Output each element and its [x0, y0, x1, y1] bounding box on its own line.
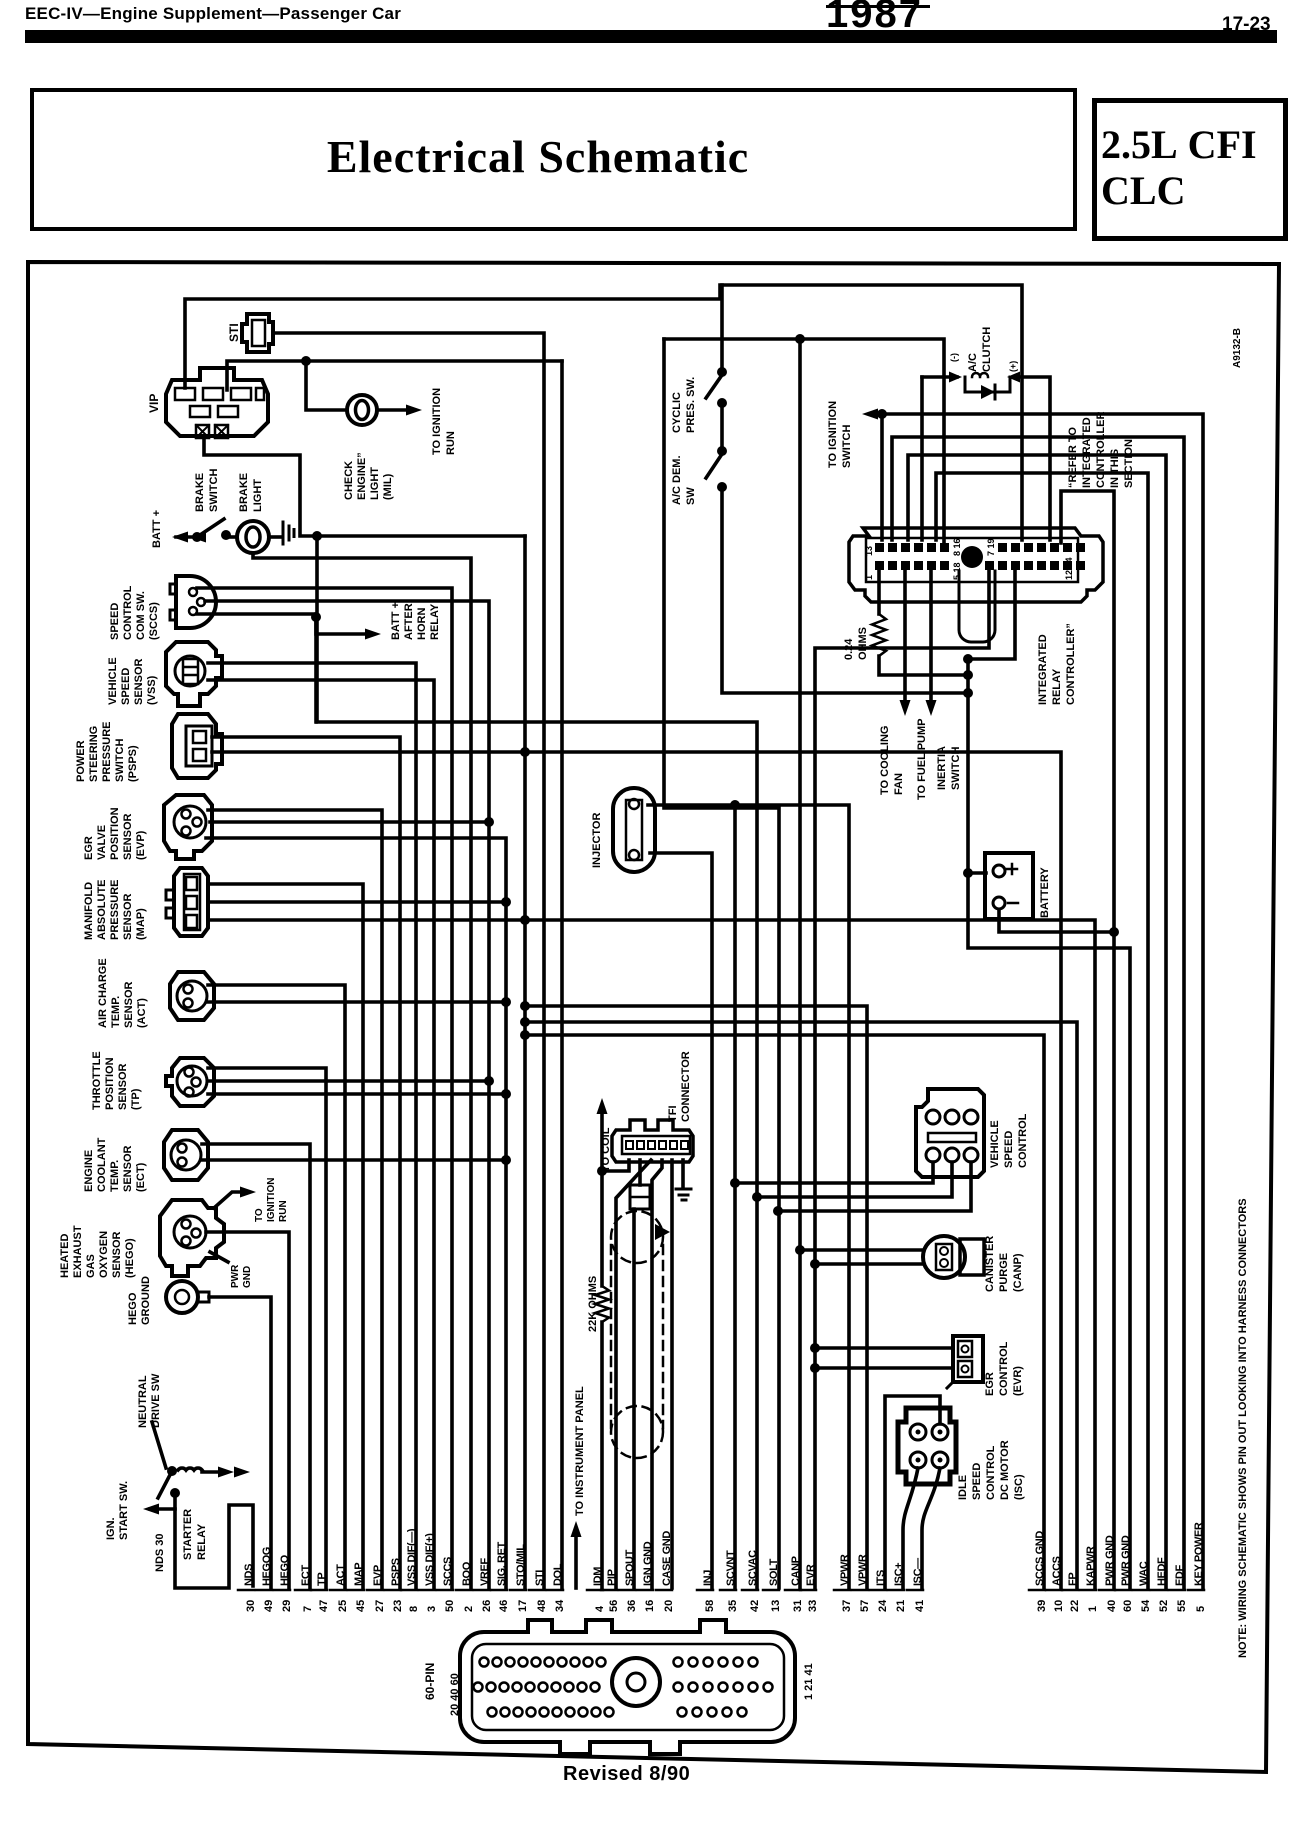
label BOO	[461, 1561, 473, 1586]
svg-text:1 21 41: 1 21 41	[803, 1663, 815, 1700]
svg-text:25: 25	[337, 1600, 349, 1612]
pin number 34	[554, 1599, 566, 1612]
svg-text:33: 33	[807, 1600, 819, 1612]
wire VSS DIF- to column	[208, 663, 416, 1588]
connector HEGO	[160, 1200, 224, 1276]
pin number 49	[263, 1600, 275, 1612]
svg-text:STI: STI	[227, 323, 241, 342]
node starter relay top	[170, 1488, 180, 1498]
wire FP pin label underline	[1062, 1589, 1078, 1592]
label KAPWR	[1085, 1546, 1097, 1586]
wire VIP pin1 to top rail then A/C area	[185, 285, 1022, 540]
label EVR	[805, 1564, 817, 1586]
switch NEUTRAL DRIVE SW	[152, 1422, 166, 1468]
resistor 0.24 OHMS	[872, 614, 886, 656]
svg-text:31: 31	[792, 1600, 804, 1612]
svg-text:30: 30	[245, 1600, 257, 1612]
wire TP pin2 vref	[208, 1079, 489, 1083]
svg-text:TO IGNITIONRUN: TO IGNITIONRUN	[431, 388, 457, 455]
wire TO INSTRUMENT PANEL	[574, 1530, 578, 1588]
label STARTER RELAY	[182, 1509, 208, 1560]
wire ign start sw arrow	[150, 1507, 175, 1511]
wire HEGO to column	[206, 1232, 289, 1588]
wire ECT pin2 sig ret	[202, 1158, 506, 1162]
relay pin label 12 24	[1064, 557, 1074, 580]
pin number 39	[1036, 1600, 1048, 1612]
resistor 22K OHMS	[595, 1286, 609, 1322]
svg-text:THROTTLEPOSITIONSENSOR(TP): THROTTLEPOSITIONSENSOR(TP)	[91, 1051, 142, 1110]
wire NDS pin label underline	[238, 1589, 254, 1592]
wire PIP pin label underline	[601, 1589, 617, 1592]
wire BOO from brake	[253, 553, 471, 1588]
svg-text:0.24OHMS: 0.24OHMS	[843, 627, 869, 660]
lamp BRAKE LIGHT	[237, 521, 269, 553]
svg-text:45: 45	[355, 1600, 367, 1612]
label ISC&#8212;	[912, 1558, 924, 1586]
label ACT	[335, 1564, 347, 1586]
svg-text:A9132-B: A9132-B	[1232, 328, 1243, 368]
wire staircase EDF	[892, 437, 1184, 1588]
label CHECK ENGINE LIGHT (MIL)	[343, 452, 394, 500]
wire IGN GND pin label underline	[637, 1589, 653, 1592]
svg-text:CANISTERPURGE(CANP): CANISTERPURGE(CANP)	[984, 1236, 1024, 1292]
label HEDF	[1156, 1557, 1168, 1586]
svg-text:13: 13	[864, 546, 874, 556]
wire EVR pin1	[815, 1346, 953, 1350]
label PWR GND	[1120, 1535, 1132, 1586]
svg-text:17: 17	[517, 1600, 529, 1612]
pin number 23	[392, 1600, 404, 1612]
label SPEED CONTROL COM SW. (SCCS)	[109, 585, 160, 640]
wire PSPS pin1 to column	[212, 737, 400, 1588]
svg-text:ECT: ECT	[300, 1565, 312, 1586]
label BRAKE SWITCH	[194, 469, 220, 512]
label DOL	[552, 1563, 564, 1586]
wire VSS DIF(+) pin label underline	[419, 1589, 435, 1592]
node MAP sigret	[501, 897, 511, 907]
pin number 57	[859, 1600, 871, 1612]
svg-text:TO INSTRUMENT PANEL: TO INSTRUMENT PANEL	[574, 1386, 586, 1516]
node fp tap	[520, 1017, 530, 1027]
relay pin label 5 18	[952, 562, 962, 580]
svg-text:BATT +: BATT +	[151, 510, 163, 548]
wire VPWR pin label underline	[834, 1589, 850, 1592]
svg-text:49: 49	[263, 1600, 275, 1612]
node scvac join	[752, 1192, 762, 1202]
wire MIL drop	[306, 361, 347, 410]
node acdem rail join	[963, 688, 973, 698]
node scvnt join	[730, 1178, 740, 1188]
wire EVP pin label underline	[367, 1589, 383, 1592]
wire PWR GND pin label underline	[1099, 1589, 1115, 1592]
label VPWR	[839, 1554, 851, 1586]
node EVP vref	[484, 817, 494, 827]
label EGR CONTROL (EVR)	[984, 1341, 1024, 1396]
wire HEGO ignition run arrow	[214, 1192, 242, 1208]
wire relay to battery rail PWR GND 60	[968, 571, 1130, 1588]
wire acdem down to battery rail	[722, 487, 968, 693]
battery BATTERY	[985, 853, 1033, 919]
connector INTEGRATED RELAY CONTROLLER	[849, 528, 1103, 602]
svg-text:TO IGNITIONSWITCH: TO IGNITIONSWITCH	[827, 401, 853, 468]
svg-text:48: 48	[536, 1600, 548, 1612]
svg-text:5: 5	[1195, 1606, 1207, 1612]
pin number 37	[841, 1600, 853, 1612]
pin number 31	[792, 1600, 804, 1612]
wire brake light to ground	[269, 535, 281, 539]
solenoid CANISTER PURGE (CANP)	[923, 1236, 984, 1278]
solenoid EGR CONTROL (EVR)	[947, 1336, 983, 1388]
svg-text:ACT: ACT	[335, 1564, 347, 1586]
pin number 36	[626, 1600, 638, 1612]
wire STO/MIL pin label underline	[510, 1589, 526, 1592]
wire VIP bottom to brake rail	[204, 438, 525, 536]
svg-text:50: 50	[444, 1600, 456, 1612]
wire ISC feed ITS	[885, 1396, 940, 1588]
node sccsgnd tap	[520, 1030, 530, 1040]
wire CASE GND column	[670, 1160, 674, 1588]
label REFER TO INTEGRATED CONTROLLER	[1067, 412, 1135, 488]
connector TP	[166, 1058, 214, 1106]
pin number 4	[594, 1605, 606, 1612]
label NDS	[243, 1564, 255, 1586]
svg-text:VSS DIF(—): VSS DIF(—)	[406, 1528, 418, 1586]
pin number 46	[498, 1600, 510, 1612]
label MANIFOLD ABSOLUTE PRESSURE SENSOR (MAP)	[83, 879, 147, 940]
label STO/MIL	[515, 1544, 527, 1586]
label TO IGNITION RUN	[431, 388, 457, 455]
svg-text:EVP: EVP	[372, 1565, 384, 1586]
wire MAP pin1 to column	[208, 884, 363, 1588]
svg-text:7: 7	[302, 1606, 314, 1612]
wire SOLT pin label underline	[763, 1589, 779, 1592]
wire cooling fan drop	[903, 571, 907, 700]
switch A/C DEM. SW	[706, 454, 722, 478]
label WAC	[1138, 1561, 1150, 1586]
wire STO/MIL column	[523, 536, 527, 1588]
wire staircase WAC	[936, 473, 1148, 1588]
wire MAP pin label underline	[348, 1589, 364, 1592]
wire EVR pin label underline	[800, 1589, 816, 1592]
distributor dashed housing	[611, 1211, 663, 1458]
pin number 29	[281, 1600, 293, 1612]
connector ECT	[164, 1130, 208, 1180]
svg-text:TFICONNECTOR: TFICONNECTOR	[667, 1051, 692, 1122]
label SCVAC	[747, 1550, 759, 1586]
wire EDF pin label underline	[1169, 1589, 1185, 1592]
compressor clutch A/C CLUTCH	[949, 372, 1020, 400]
label EGR VALVE POSITION SENSOR (EVP)	[83, 807, 147, 860]
svg-text:VSS DIF(+): VSS DIF(+)	[424, 1533, 436, 1586]
pin number 50	[444, 1600, 456, 1612]
svg-text:PWRGND: PWRGND	[230, 1264, 253, 1288]
node canp join2	[810, 1259, 820, 1269]
label VPWR	[857, 1554, 869, 1586]
wire IDM column below resistor	[600, 1322, 604, 1588]
page header left title	[25, 4, 401, 24]
svg-text:4: 4	[594, 1605, 606, 1612]
svg-text:60-PIN: 60-PIN	[423, 1663, 437, 1700]
wire SCCS GND pin label underline	[1029, 1589, 1045, 1592]
svg-text:27: 27	[374, 1600, 386, 1612]
connector MAP	[166, 868, 208, 936]
wire VIP pin2 MIL rail	[227, 361, 562, 390]
label MAP	[353, 1563, 365, 1586]
node brake switch right	[221, 530, 231, 540]
wire battery top lead	[968, 871, 986, 875]
wire relay U-link	[959, 571, 995, 642]
svg-text:55: 55	[1176, 1600, 1188, 1612]
svg-text:10: 10	[1053, 1600, 1065, 1612]
label A9132-B	[1232, 328, 1243, 368]
wire TO COIL with arrow	[600, 1112, 604, 1286]
svg-text:7 19: 7 19	[986, 538, 996, 556]
pin number 10	[1053, 1600, 1065, 1612]
pin number 3	[426, 1606, 438, 1612]
label THROTTLE POSITION SENSOR (TP)	[91, 1051, 142, 1110]
svg-text:20 40 60: 20 40 60	[449, 1673, 461, 1716]
label SCCS	[442, 1557, 454, 1586]
svg-text:TO COOLINGFAN: TO COOLINGFAN	[879, 726, 905, 795]
label TFI CONNECTOR	[667, 1051, 692, 1122]
wire WAC pin label underline	[1133, 1589, 1149, 1592]
lamp CHECK ENGINE LIGHT MIL	[347, 395, 377, 425]
svg-text:CHECKENGINE”LIGHT(MIL): CHECKENGINE”LIGHT(MIL)	[343, 452, 394, 500]
pin number 33	[807, 1600, 819, 1612]
pin number 2	[463, 1606, 475, 1612]
label HEGOG	[261, 1547, 273, 1586]
svg-text:22: 22	[1069, 1600, 1081, 1612]
label PWR GND	[1104, 1535, 1116, 1586]
label INERTIA SWITCH	[936, 746, 962, 790]
svg-text:SCVAC: SCVAC	[747, 1550, 759, 1586]
label TO IGNITION SWITCH	[827, 401, 853, 468]
connector PSPS	[172, 714, 222, 778]
wire CASE GND pin label underline	[656, 1589, 672, 1592]
svg-text:SPEEDCONTROLCOM SW.(SCCS): SPEEDCONTROLCOM SW.(SCCS)	[109, 585, 160, 640]
wire ISC plus lead	[903, 1468, 918, 1588]
svg-text:CYCLICPRES. SW.: CYCLICPRES. SW.	[671, 377, 697, 433]
label POWER STEERING PRESSURE SWITCH (PSPS)	[75, 721, 139, 782]
label CASE GND	[661, 1531, 673, 1586]
svg-text:AIR CHARGETEMP.SENSOR(ACT): AIR CHARGETEMP.SENSOR(ACT)	[97, 958, 148, 1028]
wire TO IGNITION SWITCH rail KEY POWER	[876, 414, 1203, 1588]
wire INJ pin label underline	[697, 1589, 713, 1592]
relay pin label 13	[864, 546, 874, 556]
svg-text:HEGOG: HEGOG	[261, 1547, 273, 1586]
wire CANP long vertical	[798, 339, 802, 1588]
footer revised date	[563, 1763, 690, 1786]
label ACCS	[1051, 1556, 1063, 1586]
wire vPWR run from STO/MIL rail	[525, 1006, 867, 1588]
svg-text:VREF: VREF	[479, 1558, 491, 1586]
node SCVNT tap on injector wire	[730, 800, 740, 810]
wire IDM pin label underline	[587, 1589, 603, 1592]
label BATT + (brake)	[151, 510, 163, 548]
svg-text:TOIGNITIONRUN: TOIGNITIONRUN	[254, 1178, 289, 1222]
label INJECTOR	[591, 813, 603, 868]
wire to horn relay arrow	[316, 617, 366, 634]
connector SCCS	[170, 576, 216, 628]
svg-text:BRAKELIGHT: BRAKELIGHT	[238, 473, 264, 512]
svg-text:(-): (-)	[949, 353, 959, 362]
label IDM	[592, 1567, 604, 1586]
node brake switch left	[192, 532, 202, 542]
svg-text:STI: STI	[534, 1570, 546, 1586]
wire STI pin label underline	[529, 1589, 545, 1592]
svg-text:BATT +AFTERHORNRELAY: BATT +AFTERHORNRELAY	[390, 602, 441, 640]
wire VSC pin2 to SCVAC	[757, 1162, 952, 1197]
svg-text:NDS: NDS	[243, 1564, 255, 1586]
label clutch plus	[1008, 361, 1018, 372]
label 1 21 41	[803, 1663, 815, 1700]
wire FP run from STO/MIL rail	[525, 1022, 1077, 1588]
coil primary block	[630, 1185, 650, 1209]
label SCVNT	[725, 1550, 737, 1586]
wire ACT pin2 sig ret	[208, 1000, 506, 1004]
wire KAPWR pin label underline	[1080, 1589, 1096, 1592]
label SPOUT	[624, 1549, 636, 1586]
pin number 25	[337, 1600, 349, 1612]
label AIR CHARGE TEMP. SENSOR (ACT)	[97, 958, 148, 1028]
wire ACT pin1 to column	[208, 985, 345, 1588]
pin number 24	[877, 1599, 889, 1612]
svg-text:BOO: BOO	[461, 1561, 473, 1586]
injector INJ	[613, 788, 655, 872]
wire MIL to ignition run arrow	[377, 408, 408, 412]
svg-text:54: 54	[1140, 1599, 1152, 1612]
label clutch minus	[949, 353, 959, 362]
svg-text:36: 36	[626, 1600, 638, 1612]
title box 2.5L CFI CLC	[1092, 98, 1288, 241]
wire SCVAC long run from brake rail	[317, 536, 757, 1588]
svg-text:INTEGRATEDRELAYCONTROLLER”: INTEGRATEDRELAYCONTROLLER”	[1037, 623, 1077, 705]
label CANP	[790, 1556, 802, 1586]
ground TFI case	[676, 1189, 691, 1200]
pin number 40	[1106, 1600, 1118, 1612]
connector ACT	[170, 972, 214, 1020]
relay pin label 7 19	[986, 538, 996, 556]
svg-text:21: 21	[895, 1600, 907, 1612]
pin number 30	[245, 1600, 257, 1612]
wire STI to column	[273, 333, 544, 1588]
relay pin label 1	[864, 575, 874, 580]
node canp join	[795, 1245, 805, 1255]
label HEATED EXHAUST GAS OXYGEN SENSOR (HEGO)	[59, 1225, 136, 1278]
svg-text:20: 20	[663, 1600, 675, 1612]
wire SPOUT pin label underline	[619, 1589, 635, 1592]
svg-text:22K OHMS: 22K OHMS	[587, 1276, 599, 1332]
svg-text:34: 34	[554, 1599, 566, 1612]
svg-text:STARTERRELAY: STARTERRELAY	[182, 1509, 208, 1560]
label ISC+	[893, 1563, 905, 1586]
svg-text:HEATEDEXHAUSTGASOXYGENSENSOR(H: HEATEDEXHAUSTGASOXYGENSENSOR(HEGO)	[59, 1225, 136, 1278]
node MIL rail junction	[301, 356, 311, 366]
label VSS DIF(&#8212;)	[406, 1528, 418, 1586]
pin number 60	[1122, 1600, 1134, 1612]
svg-text:56: 56	[608, 1600, 620, 1612]
svg-text:12 24: 12 24	[1064, 557, 1074, 580]
label FP	[1067, 1573, 1079, 1586]
pin number 22	[1069, 1600, 1081, 1612]
wire IGN GND column slant	[652, 1160, 662, 1588]
label IGN. START SW.	[105, 1481, 130, 1540]
node acdem top	[717, 446, 727, 456]
wire SCVNT column	[733, 805, 737, 1588]
pin number 8	[408, 1606, 420, 1612]
wire SCVAC pin label underline	[742, 1589, 758, 1592]
svg-text:HEGOGROUND: HEGOGROUND	[127, 1276, 152, 1325]
svg-text:2: 2	[463, 1606, 475, 1612]
wire SCCS pin label underline	[437, 1589, 453, 1592]
connector STI	[242, 314, 273, 352]
label VIP	[147, 394, 161, 413]
label CYCLIC PRES. SW.	[671, 377, 697, 433]
schematic border frame	[28, 262, 1279, 1772]
svg-text:47: 47	[318, 1600, 330, 1612]
wire TFI pin1 to IDM line	[602, 1160, 629, 1171]
svg-text:ENGINECOOLANTTEMP.SENSOR(ECT): ENGINECOOLANTTEMP.SENSOR(ECT)	[83, 1137, 147, 1192]
title box Electrical Schematic	[30, 88, 1077, 231]
wire TP pin3 sig ret	[208, 1092, 506, 1096]
wire KEY POWER pin label underline	[1188, 1589, 1204, 1592]
svg-text:STO/MIL: STO/MIL	[515, 1544, 527, 1586]
wire VSC pin1 to SCVNT	[735, 1162, 933, 1183]
wire HEGO pwr gnd stub	[210, 1252, 228, 1262]
svg-text:40: 40	[1106, 1600, 1118, 1612]
ground at brake light	[283, 522, 294, 544]
svg-text:EGRCONTROL(EVR): EGRCONTROL(EVR)	[984, 1341, 1024, 1396]
svg-text:16: 16	[644, 1600, 656, 1612]
label BRAKE LIGHT	[238, 473, 264, 512]
wire to-ign drop to relay pin	[880, 414, 884, 540]
svg-text:A/C DEM.SW: A/C DEM.SW	[671, 456, 697, 506]
wire DOL column	[560, 361, 564, 1588]
header rule bar	[25, 30, 1277, 43]
label PSPS	[390, 1558, 402, 1586]
pin number 48	[536, 1600, 548, 1612]
node resistor rail join	[963, 670, 973, 680]
wire TFI pin2 into coil	[638, 1160, 642, 1185]
label ITS	[875, 1570, 887, 1586]
pin number 13	[770, 1600, 782, 1612]
svg-text:BATTERY: BATTERY	[1039, 867, 1051, 918]
label 22K OHMS	[587, 1276, 599, 1332]
connector 60-PIN EEC	[460, 1620, 795, 1754]
label CANISTER PURGE (CANP)	[984, 1236, 1024, 1292]
wire VSC pin3 to SOLT	[778, 1162, 971, 1211]
pin number 21	[895, 1600, 907, 1612]
wire staircase HEDF	[908, 455, 1166, 1588]
svg-text:MAP: MAP	[353, 1563, 365, 1586]
motor IDLE SPEED CONTROL DC MOTOR (ISC)	[898, 1408, 956, 1484]
wire SIG. RET pin label underline	[491, 1589, 507, 1592]
svg-text:29: 29	[281, 1600, 293, 1612]
svg-text:41: 41	[914, 1600, 926, 1612]
svg-text:1: 1	[864, 575, 874, 580]
label ECT	[300, 1565, 312, 1586]
label VSS DIF(+)	[424, 1533, 436, 1586]
pin number 54	[1140, 1599, 1152, 1612]
wire SPOUT below coil	[632, 1209, 636, 1588]
wire SCCS pin1 to column	[197, 588, 452, 1588]
svg-text:24: 24	[877, 1599, 889, 1612]
svg-text:PSPS: PSPS	[390, 1558, 402, 1586]
distributor rotor arrow	[655, 1224, 670, 1240]
label VREF	[479, 1558, 491, 1586]
node vpwr tap	[520, 1001, 530, 1011]
wire ISC minus lead	[922, 1468, 940, 1588]
